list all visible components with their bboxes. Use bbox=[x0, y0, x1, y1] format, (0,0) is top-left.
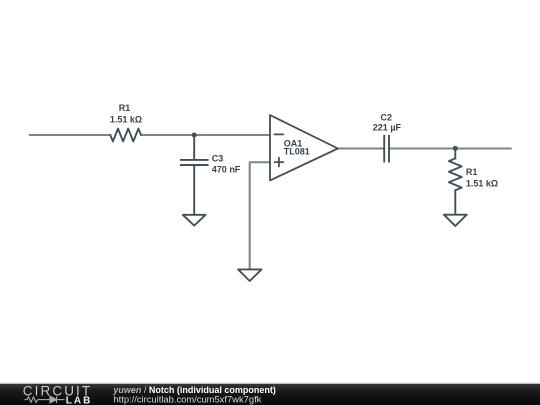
svg-text:C2: C2 bbox=[381, 112, 393, 122]
wire C2 to output right bbox=[389, 147, 511, 149]
node B junction dot bbox=[453, 146, 458, 151]
op-amp minus sign bbox=[274, 133, 283, 135]
svg-text:C3: C3 bbox=[212, 153, 224, 163]
resistor R1 right top lead bbox=[454, 149, 456, 159]
wire R1 to op-amp minus input bbox=[141, 134, 270, 136]
svg-text:1.51 kΩ: 1.51 kΩ bbox=[466, 179, 498, 189]
op-amp plus sign bbox=[275, 158, 284, 167]
wire plus input to ground bbox=[250, 162, 270, 269]
wire input left bbox=[30, 134, 111, 136]
label C3 bbox=[212, 153, 241, 174]
svg-text:R1: R1 bbox=[466, 167, 478, 177]
label OA1 TL081 bbox=[284, 139, 310, 157]
resistor R1 right bottom lead bbox=[454, 190, 456, 214]
resistor R1 right body bbox=[449, 158, 462, 190]
label C2 bbox=[373, 112, 402, 132]
capacitor C3 top lead bbox=[193, 135, 195, 159]
wire op-amp output to C2 bbox=[338, 147, 384, 149]
ground below op-amp plus input bbox=[238, 269, 261, 281]
ground below right R1 bbox=[444, 215, 467, 226]
label R1 right bbox=[466, 167, 498, 188]
svg-text:1.51 kΩ: 1.51 kΩ bbox=[110, 114, 142, 124]
svg-text:LAB: LAB bbox=[66, 395, 93, 405]
svg-text:221 µF: 221 µF bbox=[373, 122, 402, 132]
footer bar bbox=[0, 383, 540, 405]
svg-text:R1: R1 bbox=[119, 103, 131, 113]
label R1 left bbox=[110, 103, 142, 124]
capacitor C3 bottom lead bbox=[193, 165, 195, 215]
ground below C3 bbox=[183, 215, 206, 226]
svg-text:TL081: TL081 bbox=[284, 147, 310, 157]
svg-text:http://circuitlab.com/cum5xf7w: http://circuitlab.com/cum5xf7wk7gfk bbox=[113, 393, 261, 404]
node A junction dot bbox=[192, 133, 197, 138]
svg-text:470 nF: 470 nF bbox=[212, 165, 241, 175]
CircuitLab logo glyph resistor-diode bbox=[25, 396, 65, 403]
capacitor C3 plates bbox=[180, 160, 209, 165]
capacitor C2 plates bbox=[384, 135, 389, 163]
resistor R1 left body bbox=[110, 129, 141, 142]
op-amp OA1 triangle bbox=[270, 115, 338, 180]
